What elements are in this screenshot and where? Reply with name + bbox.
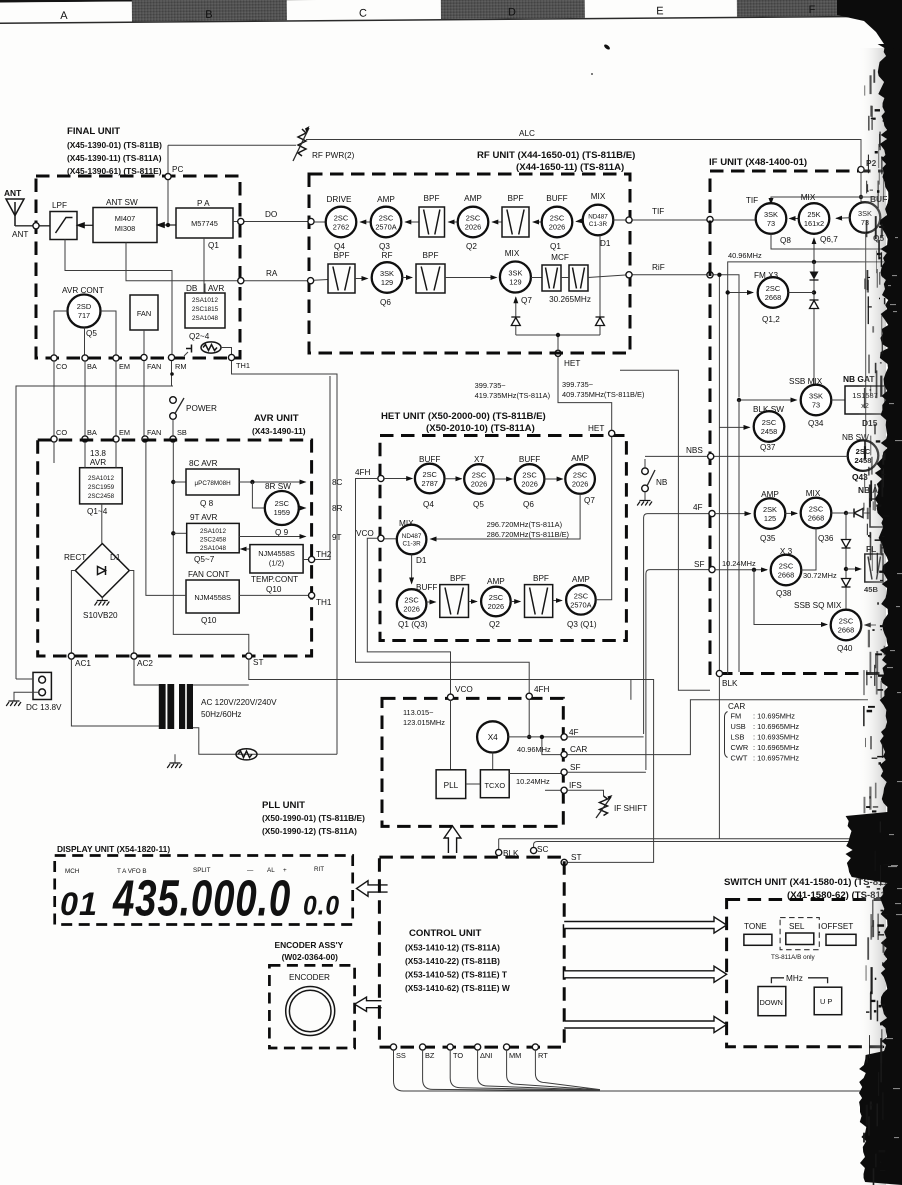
- svg-text:C: C: [359, 8, 367, 20]
- svg-text:PC: PC: [172, 165, 183, 174]
- junction 4096: [812, 260, 816, 264]
- wire SB to 9T: [173, 532, 186, 534]
- wire FAN drop2: [143, 361, 145, 436]
- button UP: [814, 987, 842, 1015]
- svg-text:CO: CO: [56, 428, 67, 437]
- junction fm out: [812, 290, 816, 294]
- svg-text:129: 129: [381, 278, 393, 287]
- node TO: [447, 1044, 463, 1060]
- svg-text:Q1,2: Q1,2: [762, 315, 780, 324]
- wire ssb sq feed: [754, 570, 827, 625]
- svg-text:Q 8: Q 8: [200, 499, 214, 508]
- svg-text:U P: U P: [820, 997, 832, 1006]
- gate NB GATE 1S1587x2: [843, 374, 885, 428]
- junction P2: [859, 195, 863, 199]
- wire x4 to 4F: [508, 737, 561, 754]
- svg-text:HET: HET: [564, 359, 580, 368]
- node DO rf: [308, 218, 314, 224]
- wire 4FH bus: [356, 479, 530, 694]
- avr unit title: [252, 413, 306, 436]
- svg-text:Q4: Q4: [423, 500, 434, 509]
- svg-text:D1: D1: [416, 556, 427, 565]
- junction fmx3: [726, 290, 730, 294]
- transistor BUF Q5 3SK73: [850, 194, 888, 243]
- wire SF link: [567, 771, 646, 773]
- svg-text:13.8: 13.8: [90, 449, 106, 458]
- svg-text:ΔNI: ΔNI: [480, 1051, 492, 1060]
- svg-text:SB: SB: [177, 428, 187, 437]
- svg-text:MIX: MIX: [801, 193, 816, 202]
- transistor AMP Q3 2SC2570A: [371, 195, 402, 251]
- arrow ctl sw3: [564, 1016, 726, 1032]
- node 4F pll: [561, 728, 579, 740]
- opamp TEMP.CONT NJM4558S(1/2) Q10: [241, 545, 303, 594]
- transistor X7 Q5 2SC2026: [464, 455, 494, 509]
- svg-text:DISPLAY UNIT (X54-1820-11): DISPLAY UNIT (X54-1820-11): [57, 844, 170, 854]
- svg-text:Q2: Q2: [466, 242, 477, 251]
- filter BPF rf1: [419, 194, 445, 237]
- scan speck artifacts: [591, 43, 611, 75]
- wire SS out: [394, 1050, 869, 1091]
- svg-text:X7: X7: [474, 455, 484, 464]
- svg-text:409.735MHz(TS-811B/E): 409.735MHz(TS-811B/E): [562, 390, 644, 399]
- control unit title: [405, 928, 510, 993]
- wire q5 q6: [494, 478, 512, 480]
- svg-text:FAN: FAN: [137, 309, 151, 318]
- filter MCF 30.265MHz: [542, 253, 591, 304]
- svg-text:BLK: BLK: [722, 679, 738, 688]
- svg-text:2SA1012: 2SA1012: [88, 475, 114, 482]
- mixer MIX D1 rf ND487C1-3R: [583, 192, 614, 248]
- mixer MIX Q7 3SK129: [500, 249, 532, 305]
- svg-text:FM: FM: [731, 712, 742, 721]
- svg-text:FINAL UNIT: FINAL UNIT: [67, 126, 120, 137]
- svg-text:10.24MHz: 10.24MHz: [722, 559, 756, 568]
- regulator 8C AVR Q8: [186, 459, 239, 508]
- svg-text:2SC: 2SC: [404, 596, 419, 605]
- svg-text:AMP: AMP: [487, 577, 505, 586]
- svg-text:RiF: RiF: [652, 263, 665, 272]
- svg-text:TIF: TIF: [652, 207, 664, 216]
- oscillator X4: [477, 721, 508, 752]
- node RiF if: [707, 272, 713, 278]
- svg-text:2SC1815: 2SC1815: [192, 306, 219, 313]
- svg-text:2570A: 2570A: [375, 223, 396, 232]
- svg-text:Q8: Q8: [780, 236, 791, 245]
- rheostat RF PWR(2): [293, 126, 355, 161]
- svg-text:IFS: IFS: [569, 781, 582, 790]
- wire CO drop: [53, 361, 55, 436]
- svg-text:73: 73: [767, 219, 775, 228]
- wire rect to AC2: [129, 571, 134, 654]
- svg-text:AMP: AMP: [464, 194, 482, 203]
- wire FAN drop: [143, 330, 145, 355]
- svg-text:Q6: Q6: [380, 298, 391, 307]
- wire q2 bpf2: [511, 601, 521, 603]
- svg-text:30.265MHz: 30.265MHz: [549, 295, 591, 304]
- wire Q5 to BA: [84, 328, 86, 355]
- svg-text:2SC2458: 2SC2458: [88, 493, 115, 500]
- junction het: [556, 333, 560, 337]
- wire bpf3 to rf amp: [355, 278, 368, 280]
- wire ssbmix to nbgate: [831, 399, 845, 401]
- svg-text:2SC: 2SC: [550, 214, 565, 223]
- node AC2: [131, 653, 153, 668]
- mixer MIX D1 ND487C1-3R: [397, 519, 427, 565]
- wire mix to q1: [576, 220, 583, 223]
- transistor DRIVE Q4 2SC2762: [326, 195, 357, 251]
- mixer SSB SQ MIX Q40 2SC2668: [794, 601, 861, 653]
- svg-text:286.720MHz(TS-811B/E): 286.720MHz(TS-811B/E): [487, 530, 569, 539]
- transistor AMP Q2 2SC2026: [481, 577, 511, 629]
- diode lo1: [511, 317, 520, 326]
- svg-text:DOWN: DOWN: [760, 998, 783, 1007]
- svg-text:MCF: MCF: [551, 253, 569, 262]
- svg-text:2026: 2026: [403, 605, 419, 614]
- svg-text:PLL UNIT: PLL UNIT: [262, 800, 305, 811]
- junction flt: [844, 567, 848, 571]
- wire MM out: [507, 1050, 600, 1090]
- wire q7 to mix: [431, 494, 581, 539]
- svg-text:Q5~7: Q5~7: [194, 555, 215, 564]
- wire rif tail: [738, 400, 740, 672]
- node ST: [246, 653, 264, 667]
- junction sf: [752, 568, 756, 572]
- svg-text:AMP: AMP: [572, 575, 590, 584]
- wire q4 q5: [445, 478, 462, 480]
- svg-text:RIT: RIT: [314, 866, 324, 873]
- svg-text:Q1~4: Q1~4: [87, 507, 108, 516]
- node DO final: [238, 218, 244, 224]
- wire P2 to tif: [771, 197, 861, 204]
- switch unit dashed box: [727, 900, 889, 1047]
- svg-text:μPC78M08H: μPC78M08H: [195, 480, 232, 487]
- svg-text:2SC: 2SC: [275, 499, 290, 508]
- arrow control to pll: [444, 826, 461, 853]
- svg-text:SF: SF: [570, 763, 580, 772]
- wire 40.96: [728, 251, 884, 674]
- svg-text:(X53-1410-52) (TS-811E) T: (X53-1410-52) (TS-811E) T: [405, 970, 508, 980]
- svg-text:ANT SW: ANT SW: [106, 198, 138, 207]
- transistor RF Q6 3SK129: [372, 251, 403, 307]
- svg-text:P A: P A: [197, 199, 210, 208]
- transistor BUFF Q1(Q3) 2SC2026: [397, 583, 438, 629]
- pll unit dashed box: [382, 698, 563, 826]
- svg-text:40.96MHz: 40.96MHz: [517, 745, 551, 754]
- node TH1 avr: [239, 592, 332, 607]
- amplifier PA M57745 Q1: [176, 199, 233, 250]
- wire 4F link: [567, 736, 643, 738]
- wire TH1 bus: [232, 361, 338, 754]
- svg-text:4FH: 4FH: [355, 468, 371, 477]
- svg-text:ND487: ND487: [402, 533, 422, 540]
- svg-text:MCH: MCH: [65, 868, 80, 875]
- wire SC: [534, 842, 868, 848]
- svg-text:2SC: 2SC: [839, 617, 854, 626]
- svg-text:: 10.695MHz: : 10.695MHz: [753, 712, 795, 721]
- svg-text:Q1 (Q3): Q1 (Q3): [398, 620, 428, 629]
- junction car: [540, 735, 544, 739]
- svg-text:MI407: MI407: [115, 214, 136, 223]
- label AC voltage: [201, 698, 277, 719]
- svg-text:1959: 1959: [274, 508, 290, 517]
- svg-text:MI308: MI308: [115, 224, 136, 233]
- svg-text:01: 01: [60, 886, 98, 922]
- wire q38 out: [801, 528, 837, 580]
- svg-text:Q1: Q1: [208, 241, 219, 250]
- wire TH2 riser: [315, 376, 330, 560]
- wire blk to control: [498, 839, 500, 850]
- svg-text:TH1: TH1: [316, 598, 332, 607]
- transistor AMP Q35 2SK125: [755, 490, 786, 543]
- wire vco to pll box: [450, 700, 452, 770]
- wire bpf to q3: [405, 221, 419, 223]
- torn black scan edge: [846, 44, 902, 1185]
- svg-text:TIF: TIF: [746, 196, 758, 205]
- transistor BUFF Q1 2SC2026: [542, 194, 573, 251]
- mixer SSB MIX Q34 3SK73: [789, 377, 831, 428]
- node RiF rf: [626, 272, 632, 278]
- svg-text:VCO: VCO: [356, 529, 374, 538]
- wire ANT to LPF: [15, 225, 50, 227]
- diode fm1: [810, 272, 819, 281]
- svg-text:POWER: POWER: [186, 404, 217, 413]
- node VCO pll: [447, 685, 472, 700]
- transistor BUFF Q6 2SC2026: [515, 455, 545, 509]
- svg-text:Q10: Q10: [266, 585, 282, 594]
- svg-text:2SC: 2SC: [379, 214, 394, 223]
- ground transformer: [167, 754, 182, 768]
- wire CAR link: [567, 700, 868, 755]
- svg-text:BUFF: BUFF: [546, 194, 567, 203]
- wire SB to 8C: [173, 481, 186, 483]
- arrow control to encoder: [355, 997, 382, 1011]
- svg-text:2026: 2026: [549, 223, 565, 232]
- wire q35 q36: [785, 512, 797, 514]
- svg-text:FAN: FAN: [147, 362, 161, 371]
- svg-text:Q36: Q36: [818, 534, 834, 543]
- node BZ: [420, 1044, 435, 1060]
- svg-text:BPF: BPF: [334, 251, 350, 260]
- wire q6 q7: [544, 478, 562, 480]
- svg-text:NJM4558S: NJM4558S: [194, 593, 231, 602]
- wire 8R out: [299, 507, 306, 509]
- transistor BLK SW Q37 2SC2458: [753, 405, 784, 452]
- filter BPF rf2: [502, 194, 529, 237]
- svg-text:2SC: 2SC: [334, 214, 349, 223]
- node BLK if: [716, 670, 738, 688]
- thermistor TH1 sense: [184, 342, 232, 356]
- wire BLK link: [718, 677, 720, 839]
- wire rf to bpf4: [402, 277, 412, 279]
- node ANI: [475, 1044, 493, 1060]
- svg-text:B: B: [205, 9, 212, 21]
- filter BPF rf3: [328, 251, 355, 293]
- regulator 9T AVR Q5-7: [187, 513, 240, 564]
- wire BA into 13.8: [84, 442, 86, 468]
- node 4FH pll: [526, 685, 549, 699]
- wire d1 lo: [599, 236, 601, 336]
- svg-text:Q4: Q4: [334, 242, 345, 251]
- svg-text:DC 13.8V: DC 13.8V: [26, 703, 62, 712]
- svg-text:2668: 2668: [778, 571, 794, 580]
- svg-text:Q2: Q2: [489, 620, 500, 629]
- svg-text:PLL: PLL: [444, 781, 459, 790]
- svg-text:EM: EM: [119, 428, 130, 437]
- svg-text:D: D: [508, 6, 516, 18]
- wire CO stub: [53, 442, 55, 463]
- button OFFSET: [821, 922, 856, 945]
- wire NBS: [645, 455, 848, 457]
- wire ALC: [306, 129, 861, 166]
- svg-text:2SC: 2SC: [809, 505, 824, 514]
- wire RT out: [535, 1050, 600, 1090]
- svg-text:FAN: FAN: [147, 428, 161, 437]
- svg-text:2762: 2762: [333, 223, 349, 232]
- junction 4fh: [527, 735, 531, 739]
- svg-text:ND487: ND487: [588, 214, 608, 221]
- svg-text:BPF: BPF: [508, 194, 524, 203]
- svg-text:40.96MHz: 40.96MHz: [728, 251, 762, 260]
- node HET rf: [555, 350, 580, 368]
- svg-text:(X45-1390-01) (TS-811B): (X45-1390-01) (TS-811B): [67, 140, 162, 150]
- svg-text:DRIVE: DRIVE: [326, 195, 352, 204]
- wire blk horizontal: [499, 838, 868, 840]
- transistor FM X3 Q1,2 2SC2668: [754, 271, 788, 324]
- svg-text:OFFSET: OFFSET: [821, 922, 853, 931]
- svg-text:MM: MM: [509, 1051, 521, 1060]
- node 4FH het: [355, 468, 384, 482]
- svg-text:ENCODER: ENCODER: [289, 973, 330, 982]
- wire RA: [240, 269, 311, 281]
- svg-text:Q7: Q7: [521, 296, 532, 305]
- wire bpf q2: [469, 601, 477, 603]
- svg-text:FAN CONT: FAN CONT: [188, 570, 229, 579]
- node RA final: [238, 278, 244, 284]
- node P2: [858, 158, 877, 173]
- wire RA to bpf: [314, 279, 328, 282]
- svg-text:NJM4558S: NJM4558S: [258, 549, 295, 558]
- svg-text:EM: EM: [119, 362, 130, 371]
- svg-text:AMP: AMP: [571, 454, 589, 463]
- svg-text:(X50-2010-10) (TS-811A): (X50-2010-10) (TS-811A): [426, 423, 535, 434]
- wire mix lo: [813, 238, 815, 262]
- wire q1 to bpf2: [533, 221, 542, 223]
- node SB: [170, 428, 187, 442]
- connector DC 13.8V: [6, 672, 62, 712]
- svg-text:Q3: Q3: [379, 242, 390, 251]
- wire q1 bpf: [426, 601, 435, 603]
- svg-text:BPF: BPF: [424, 194, 440, 203]
- wire mix down: [411, 554, 413, 583]
- svg-text:Q2~4: Q2~4: [189, 332, 210, 341]
- node ANT on final unit edge: [33, 223, 39, 229]
- node BA avr: [82, 428, 97, 442]
- svg-text:AC2: AC2: [137, 659, 153, 668]
- svg-text:(X50-1990-01) (TS-811B/E): (X50-1990-01) (TS-811B/E): [262, 813, 365, 823]
- rheostat IF SHIFT: [567, 790, 647, 818]
- svg-text:CAR: CAR: [570, 745, 587, 754]
- diode fm2: [810, 300, 819, 309]
- wire AC1 to transformer: [71, 659, 159, 726]
- svg-text:2668: 2668: [765, 293, 781, 302]
- pll unit title: [262, 800, 365, 836]
- svg-text:(X50-1990-12) (TS-811A): (X50-1990-12) (TS-811A): [262, 826, 357, 836]
- svg-text:TH1: TH1: [236, 361, 250, 370]
- svg-text:LSB: LSB: [731, 733, 745, 742]
- svg-text:2SC: 2SC: [472, 471, 487, 480]
- transistor TIF Q8 3SK73: [746, 196, 792, 245]
- svg-text:2SA1012: 2SA1012: [200, 528, 226, 535]
- wire 9T out: [239, 536, 305, 538]
- node MM: [504, 1044, 522, 1060]
- wire ANT SW to LPF: [77, 224, 93, 226]
- rf unit dashed box: [309, 174, 630, 353]
- svg-text:MIX: MIX: [505, 249, 520, 258]
- svg-text:(X53-1410-12) (TS-811A): (X53-1410-12) (TS-811A): [405, 943, 500, 953]
- svg-text:MIX: MIX: [806, 489, 821, 498]
- wire het output riser: [596, 437, 612, 600]
- svg-text:IF UNIT (X48-1400-01): IF UNIT (X48-1400-01): [709, 157, 807, 168]
- final unit dashed box: [36, 176, 240, 358]
- wire EM drop: [115, 361, 117, 436]
- svg-text:NBS: NBS: [686, 446, 703, 455]
- svg-text:2SC: 2SC: [522, 471, 537, 480]
- node RA rf: [308, 278, 314, 284]
- regulator DB AVR Q2~4: [185, 284, 225, 342]
- switch POWER: [170, 397, 217, 436]
- diode lo2: [596, 317, 605, 326]
- svg-text:3SK: 3SK: [809, 392, 823, 401]
- wire HET link: [558, 357, 612, 431]
- svg-text:296.720MHz(TS-811A): 296.720MHz(TS-811A): [487, 520, 562, 529]
- node TH2: [303, 550, 332, 563]
- svg-text:TEMP.CONT: TEMP.CONT: [251, 575, 298, 584]
- junction PC-antsw: [166, 223, 170, 227]
- junction 8C-8R: [250, 480, 254, 484]
- svg-text:129: 129: [509, 278, 521, 287]
- svg-text:C1-3R: C1-3R: [589, 221, 608, 228]
- label MHz bracket: [771, 974, 827, 983]
- svg-text:SS: SS: [396, 1051, 406, 1060]
- svg-text:DB: DB: [186, 284, 198, 293]
- torn corner top right: [837, 0, 902, 50]
- wire 4fh drop: [528, 699, 530, 737]
- wire pll tcxo: [466, 783, 481, 785]
- junction SB-8C: [171, 480, 175, 484]
- svg-text:MHz: MHz: [786, 974, 803, 983]
- svg-text:(1/2): (1/2): [269, 559, 284, 568]
- mixer MIX Q6,7 25K161x2: [799, 193, 838, 244]
- svg-text:RECT: RECT: [64, 553, 86, 562]
- svg-text:2026: 2026: [471, 480, 487, 489]
- svg-text:4F: 4F: [569, 728, 579, 737]
- svg-text:CO: CO: [56, 362, 67, 371]
- transistor AMP Q2 2SC2026: [458, 194, 489, 251]
- svg-text:F: F: [809, 4, 816, 16]
- svg-text:S10VB20: S10VB20: [83, 611, 118, 620]
- svg-text:BUFF: BUFF: [519, 455, 540, 464]
- wire PC riser: [167, 145, 169, 223]
- svg-text:RA: RA: [266, 269, 278, 278]
- svg-text:NB: NB: [656, 478, 668, 487]
- svg-text:2SA1012: 2SA1012: [192, 297, 218, 304]
- svg-text:DO: DO: [265, 210, 277, 219]
- node CO: [51, 355, 67, 371]
- svg-text:CWR: CWR: [731, 743, 749, 752]
- wire 4F if: [644, 514, 712, 734]
- button SEL: [780, 918, 819, 950]
